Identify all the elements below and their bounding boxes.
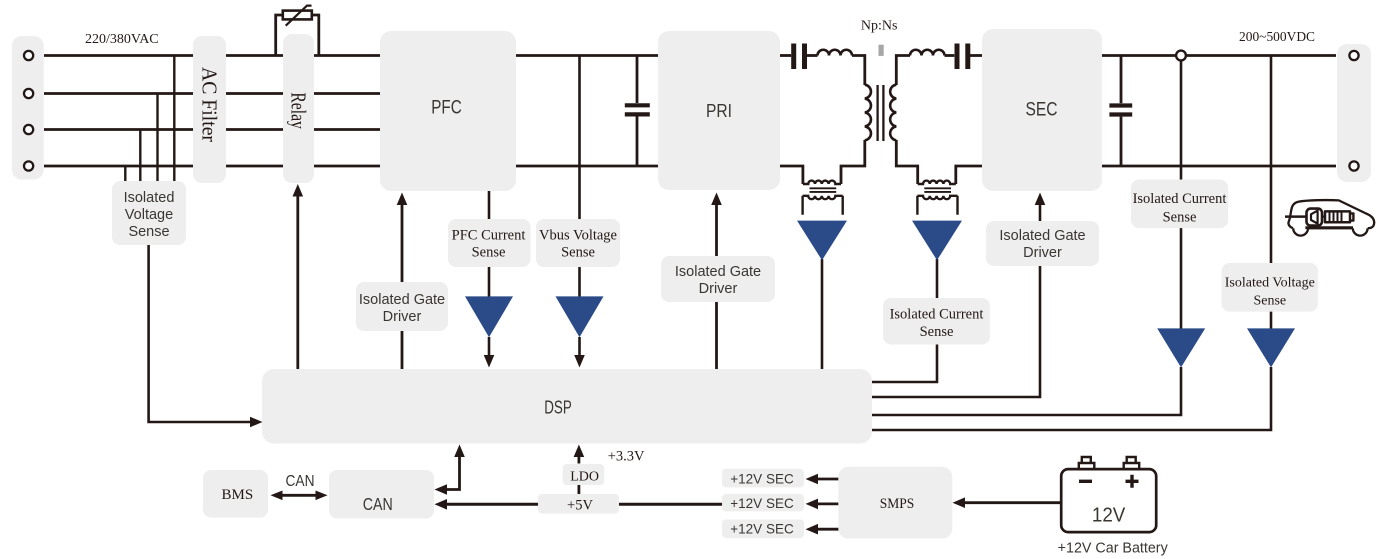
arrowhead PFC gate (up into PFC) xyxy=(397,193,408,206)
+12V SEC box 3 xyxy=(722,520,804,539)
+5V block xyxy=(538,494,619,514)
current transformer CT1 secondary leads xyxy=(803,196,843,215)
AC input terminal pin 1 xyxy=(24,51,33,60)
svg-text:+12V Car Battery: +12V Car Battery xyxy=(1058,540,1169,556)
svg-text:CAN: CAN xyxy=(363,494,393,514)
svg-text:DSP: DSP xyxy=(544,398,572,418)
svg-text:Driver: Driver xyxy=(1023,245,1062,261)
arrowhead BMS-CAN right end xyxy=(316,491,328,501)
wire AC line L2 xyxy=(44,92,380,95)
capacitor C1 plates xyxy=(625,105,650,114)
capacitor C4 (output) lead top xyxy=(1120,56,1123,104)
arrowhead BMS-CAN left end xyxy=(271,491,283,501)
op-amp U1 (CT1 sense amp) xyxy=(797,221,847,261)
wire Vbus voltage sense tap xyxy=(578,56,581,298)
DC output terminal pin negative xyxy=(1349,161,1358,170)
car icon (EV with charge plug) xyxy=(1285,200,1374,236)
svg-text:Isolated Gate: Isolated Gate xyxy=(675,264,761,280)
arrowhead SEC gate (up into SEC) xyxy=(1035,193,1046,206)
wire transformer secondary top riser xyxy=(896,56,910,86)
op-amp U2 (CT2 sense amp) xyxy=(912,221,962,261)
transformer T1 gap marker xyxy=(879,45,884,56)
op-amp U5 (output current sense amp) xyxy=(1157,328,1205,367)
op-amp U6 (output voltage sense amp) xyxy=(1247,328,1295,367)
inductor L5 (resonant primary) xyxy=(818,50,853,56)
wire voltage sense tap from L4 xyxy=(124,166,126,182)
+12V SEC box 2 xyxy=(722,494,804,512)
wire inductor to transformer primary top xyxy=(852,56,865,86)
wire output current sense amp to DSP xyxy=(872,367,1181,415)
svg-text:+12V SEC: +12V SEC xyxy=(730,521,794,537)
battery terminal negative post xyxy=(1079,457,1095,469)
wire +5V to CAN xyxy=(446,503,538,506)
svg-text:Vbus Voltage: Vbus Voltage xyxy=(539,228,617,244)
capacitor C2 (resonant primary) plates xyxy=(794,44,805,70)
AC input terminal pin 4 xyxy=(24,161,33,170)
svg-text:AC Filter: AC Filter xyxy=(198,67,222,142)
wire SMPS to +12V SEC 3 xyxy=(817,528,839,531)
arrowhead +5V rail left into CAN xyxy=(435,499,448,510)
svg-text:Sense: Sense xyxy=(561,245,595,261)
svg-text:Np:Ns: Np:Ns xyxy=(861,19,898,34)
arrowhead PRI gate (up into PRI) xyxy=(711,193,722,206)
thermistor RT1 bypass wiring xyxy=(276,15,319,57)
wire CT1 sense to DSP xyxy=(821,259,824,369)
arrowhead isolated voltage sense into DSP (right) xyxy=(250,417,263,428)
wire BMS to CAN double arrow line xyxy=(281,494,316,497)
arrowhead PFC current sense into DSP (down) xyxy=(484,355,495,368)
wire +5V to +12V SEC rail xyxy=(619,503,723,506)
wire secondary inductor to capacitor xyxy=(945,54,955,57)
wire CT1 to transformer primary bottom xyxy=(841,140,865,184)
wire PRI gate drive line xyxy=(715,203,718,369)
Isolated Current Sense box (CT2) xyxy=(883,298,990,345)
svg-text:Relay: Relay xyxy=(287,92,311,129)
svg-text:220/380VAC: 220/380VAC xyxy=(85,32,159,47)
svg-text:PFC: PFC xyxy=(431,97,462,119)
arrowhead battery to SMPS xyxy=(953,497,966,508)
wire output voltage sense drop xyxy=(1270,56,1273,329)
wire Vbus sense amp to DSP arrow line xyxy=(578,337,581,356)
capacitor C1 (DC bus) lead top xyxy=(636,56,639,104)
wire output voltage sense amp to DSP xyxy=(872,367,1271,430)
arrowhead CAN link up into DSP xyxy=(454,445,465,458)
Isolated Gate Driver box (PFC) xyxy=(356,282,448,331)
transformer T1 primary winding xyxy=(865,85,871,141)
battery terminal positive post xyxy=(1124,457,1140,469)
AC input terminal block xyxy=(12,36,44,180)
wire SEC output top bus xyxy=(1102,54,1336,57)
AC input terminal pin 3 xyxy=(24,125,33,134)
current transformer CT2 secondary leads xyxy=(917,196,957,215)
SMPS block xyxy=(838,467,952,539)
wire CT2 sense to DSP xyxy=(872,259,937,382)
svg-text:Isolated Current: Isolated Current xyxy=(890,307,984,323)
arrowhead SMPS to +12V SEC 3 xyxy=(806,524,819,535)
PFC block xyxy=(380,31,516,191)
wire isolated voltage sense to DSP xyxy=(149,245,251,422)
current transformer CT2 primary coil xyxy=(918,181,956,184)
wire PRI output bottom to CT1 xyxy=(780,166,803,184)
CAN block xyxy=(329,470,434,519)
svg-text:Sense: Sense xyxy=(1253,294,1286,309)
capacitor C4 plates xyxy=(1109,106,1132,115)
wire voltage sense tap from L2 xyxy=(156,94,158,183)
current transformer CT2 core xyxy=(924,188,951,192)
wire PRI output top to resonant capacitor xyxy=(780,54,791,57)
wire PFC current sense amp to DSP arrow line xyxy=(488,337,491,356)
wire DC bus top PFC to PRI xyxy=(516,54,658,57)
thermistor RT1 body xyxy=(283,11,312,20)
svg-text:LDO: LDO xyxy=(570,469,599,484)
wire LDO to +5V link xyxy=(578,484,581,495)
Isolated Voltage Sense box (DC output) xyxy=(1222,263,1319,312)
Vbus Voltage Sense box xyxy=(536,219,620,267)
op-amp U3 (PFC current sense amp) xyxy=(465,296,513,337)
current transformer CT1 core xyxy=(810,188,837,192)
wire SMPS to +12V SEC 1 xyxy=(817,478,839,481)
svg-text:SMPS: SMPS xyxy=(880,496,915,512)
svg-text:Sense: Sense xyxy=(920,324,954,340)
+12V SEC box 1 xyxy=(722,469,804,488)
svg-text:Voltage: Voltage xyxy=(125,207,173,223)
wire resonant capacitor to inductor xyxy=(807,54,818,57)
wire AC line L3 xyxy=(44,128,380,131)
wire PFC current sense line xyxy=(488,191,491,297)
svg-text:CAN: CAN xyxy=(286,473,315,490)
DC output terminal block xyxy=(1337,44,1371,182)
AC input terminal pin 2 xyxy=(24,89,33,98)
current transformer CT2 secondary coil xyxy=(917,196,957,199)
node junction on DC output top bus xyxy=(1176,51,1186,61)
Isolated Gate Driver box (PRI) xyxy=(661,256,775,302)
svg-text:SEC: SEC xyxy=(1026,98,1058,120)
wire AC line L4 xyxy=(44,165,380,168)
Relay block xyxy=(283,34,314,183)
BMS block xyxy=(203,470,268,518)
arrowhead LDO up into DSP xyxy=(574,445,585,458)
arrowhead relay control (up into Relay) xyxy=(293,184,304,197)
wire CT2 to SEC bottom xyxy=(956,166,982,184)
Isolated Current Sense box (DC output) xyxy=(1131,180,1228,229)
transformer T1 secondary winding xyxy=(890,85,896,141)
battery minus sign xyxy=(1079,480,1092,483)
svg-text:Driver: Driver xyxy=(383,309,422,325)
wire DC bus bottom PFC to PRI xyxy=(516,165,658,168)
wire LDO to DSP arrow line xyxy=(578,456,581,464)
svg-text:Isolated Gate: Isolated Gate xyxy=(359,292,445,308)
transformer T1 core xyxy=(878,85,884,141)
svg-text:Sense: Sense xyxy=(128,224,169,240)
current transformer CT1 primary coil xyxy=(803,181,841,184)
battery 12V body xyxy=(1061,469,1156,532)
svg-text:PRI: PRI xyxy=(706,100,732,121)
wire 12V battery to SMPS xyxy=(964,501,1061,504)
PFC Current Sense box xyxy=(448,219,531,267)
svg-text:+12V SEC: +12V SEC xyxy=(730,495,794,511)
Isolated Voltage Sense box (AC input) xyxy=(112,181,186,245)
arrowhead SMPS to +12V SEC 1 xyxy=(806,474,819,485)
arrowhead SMPS to +12V SEC 2 xyxy=(806,499,819,510)
Isolated Gate Driver box (SEC) xyxy=(986,221,1099,266)
svg-text:BMS: BMS xyxy=(222,487,254,503)
wire relay control from DSP xyxy=(296,195,299,369)
wire SMPS to +12V SEC 2 xyxy=(817,502,839,505)
svg-text:Isolated Voltage: Isolated Voltage xyxy=(1225,276,1315,291)
capacitor C4 lead bottom xyxy=(1120,117,1123,166)
inductor L6 (resonant secondary) xyxy=(910,50,945,56)
capacitor C1 lead bottom xyxy=(636,117,639,167)
wire DSP to CAN L-link xyxy=(446,456,460,490)
battery plus sign xyxy=(1126,475,1139,488)
wire voltage sense tap from L1 xyxy=(173,56,175,183)
LDO block xyxy=(563,464,605,485)
wire voltage sense tap from L3 xyxy=(139,130,141,183)
wire PFC gate drive line xyxy=(401,203,404,369)
svg-text:PFC Current: PFC Current xyxy=(452,228,526,244)
svg-text:Isolated Gate: Isolated Gate xyxy=(999,228,1085,244)
current transformer CT1 secondary coil xyxy=(803,196,843,199)
AC Filter block xyxy=(193,36,226,183)
arrowhead Vbus sense into DSP (down) xyxy=(574,355,585,368)
capacitor C3 (resonant secondary) plates xyxy=(957,44,968,70)
op-amp U4 (Vbus voltage sense amp) xyxy=(556,296,604,337)
svg-text:Isolated Current: Isolated Current xyxy=(1133,191,1227,207)
svg-text:Driver: Driver xyxy=(699,281,738,297)
svg-text:Isolated: Isolated xyxy=(124,190,175,206)
PRI block xyxy=(658,31,780,190)
wire SEC gate drive from DSP xyxy=(872,203,1040,397)
svg-text:+5V: +5V xyxy=(567,497,593,513)
svg-text:+3.3V: +3.3V xyxy=(608,449,645,465)
wire transformer secondary bottom to CT2 xyxy=(896,140,917,184)
DSP block xyxy=(262,369,872,444)
arrowhead CAN link left into CAN xyxy=(435,484,448,495)
svg-text:+12V SEC: +12V SEC xyxy=(730,470,794,486)
DC output terminal pin positive xyxy=(1349,51,1358,60)
wire output current sense drop xyxy=(1180,60,1183,329)
SEC block xyxy=(982,29,1102,191)
wire AC line L1 xyxy=(44,54,380,57)
svg-text:12V: 12V xyxy=(1092,505,1126,527)
thermistor RT1 diagonal NTC stroke xyxy=(286,6,312,26)
svg-text:Sense: Sense xyxy=(472,245,506,261)
svg-text:Sense: Sense xyxy=(1163,210,1197,226)
wire secondary capacitor to SEC xyxy=(970,54,982,57)
svg-text:200~500VDC: 200~500VDC xyxy=(1239,30,1315,45)
wire SEC output bottom bus xyxy=(1102,165,1336,168)
